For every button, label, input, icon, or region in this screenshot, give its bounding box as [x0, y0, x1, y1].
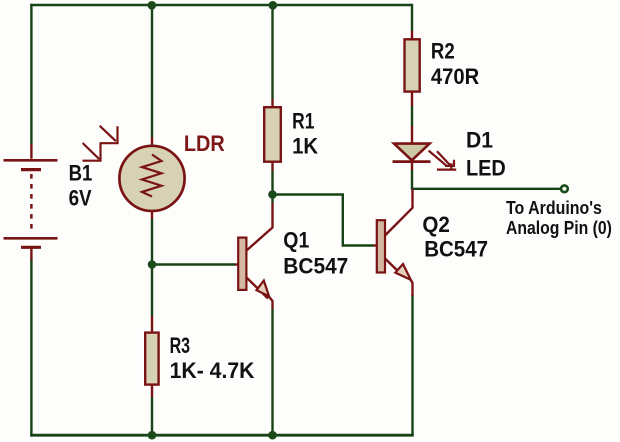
wire R1 top drop [271, 4, 273, 100]
wire output [412, 188, 562, 190]
wire R1 bottom to node [271, 170, 273, 204]
svg-text:Q2: Q2 [422, 212, 450, 237]
node junction bottom rail Q1 [268, 431, 277, 440]
wire node to Q1 base [152, 263, 235, 265]
resistor R1 [264, 99, 281, 171]
wire left rail lower [30, 258, 32, 437]
svg-text:To Arduino's: To Arduino's [506, 198, 602, 218]
svg-text:1K- 4.7K: 1K- 4.7K [170, 358, 255, 383]
wire LDR top drop [151, 4, 153, 138]
wire R2 to LED [411, 105, 413, 127]
wire LED to collector node [411, 169, 413, 190]
node junction R1 bottom [268, 190, 277, 199]
LDR light arrows [83, 126, 119, 161]
battery B1 [4, 144, 58, 260]
resistor R2 [405, 31, 420, 106]
wire top rail [30, 4, 412, 6]
wire node to Q2 base [273, 195, 374, 246]
transistor Q1 [235, 203, 273, 309]
svg-text:LDR: LDR [184, 131, 225, 156]
wire R3 bottom [151, 396, 153, 436]
diode D1 LED [393, 126, 431, 170]
LED light arrows [429, 151, 457, 170]
svg-text:470R: 470R [431, 64, 479, 89]
resistor R3 [145, 316, 158, 397]
wire left rail upper [30, 4, 32, 145]
node junction LDR bottom [148, 260, 157, 269]
svg-text:6V: 6V [69, 185, 92, 210]
svg-text:R3: R3 [170, 333, 191, 358]
wire bottom rail [30, 434, 414, 437]
svg-text:BC547: BC547 [283, 253, 348, 278]
svg-text:R1: R1 [292, 108, 314, 133]
wire R2 top drop [411, 4, 413, 32]
svg-text:Analog Pin (0): Analog Pin (0) [506, 218, 612, 238]
terminal output pin [561, 185, 568, 192]
svg-text:B1: B1 [69, 160, 93, 185]
node junction bottom rail LDR [148, 431, 157, 440]
wire Q1 emitter down [271, 308, 273, 436]
node junction top LDR [148, 1, 157, 10]
LDR component [119, 137, 184, 219]
svg-text:Q1: Q1 [283, 227, 309, 252]
svg-text:D1: D1 [466, 128, 493, 153]
wire Q2 emitter down [411, 295, 413, 436]
svg-text:1K: 1K [292, 133, 318, 158]
svg-text:BC547: BC547 [424, 237, 488, 262]
svg-text:R2: R2 [431, 39, 455, 64]
svg-text:LED: LED [466, 155, 506, 180]
node junction top R1 [269, 1, 278, 10]
wire LDR bottom to node [151, 218, 153, 317]
transistor Q2 [374, 189, 413, 296]
